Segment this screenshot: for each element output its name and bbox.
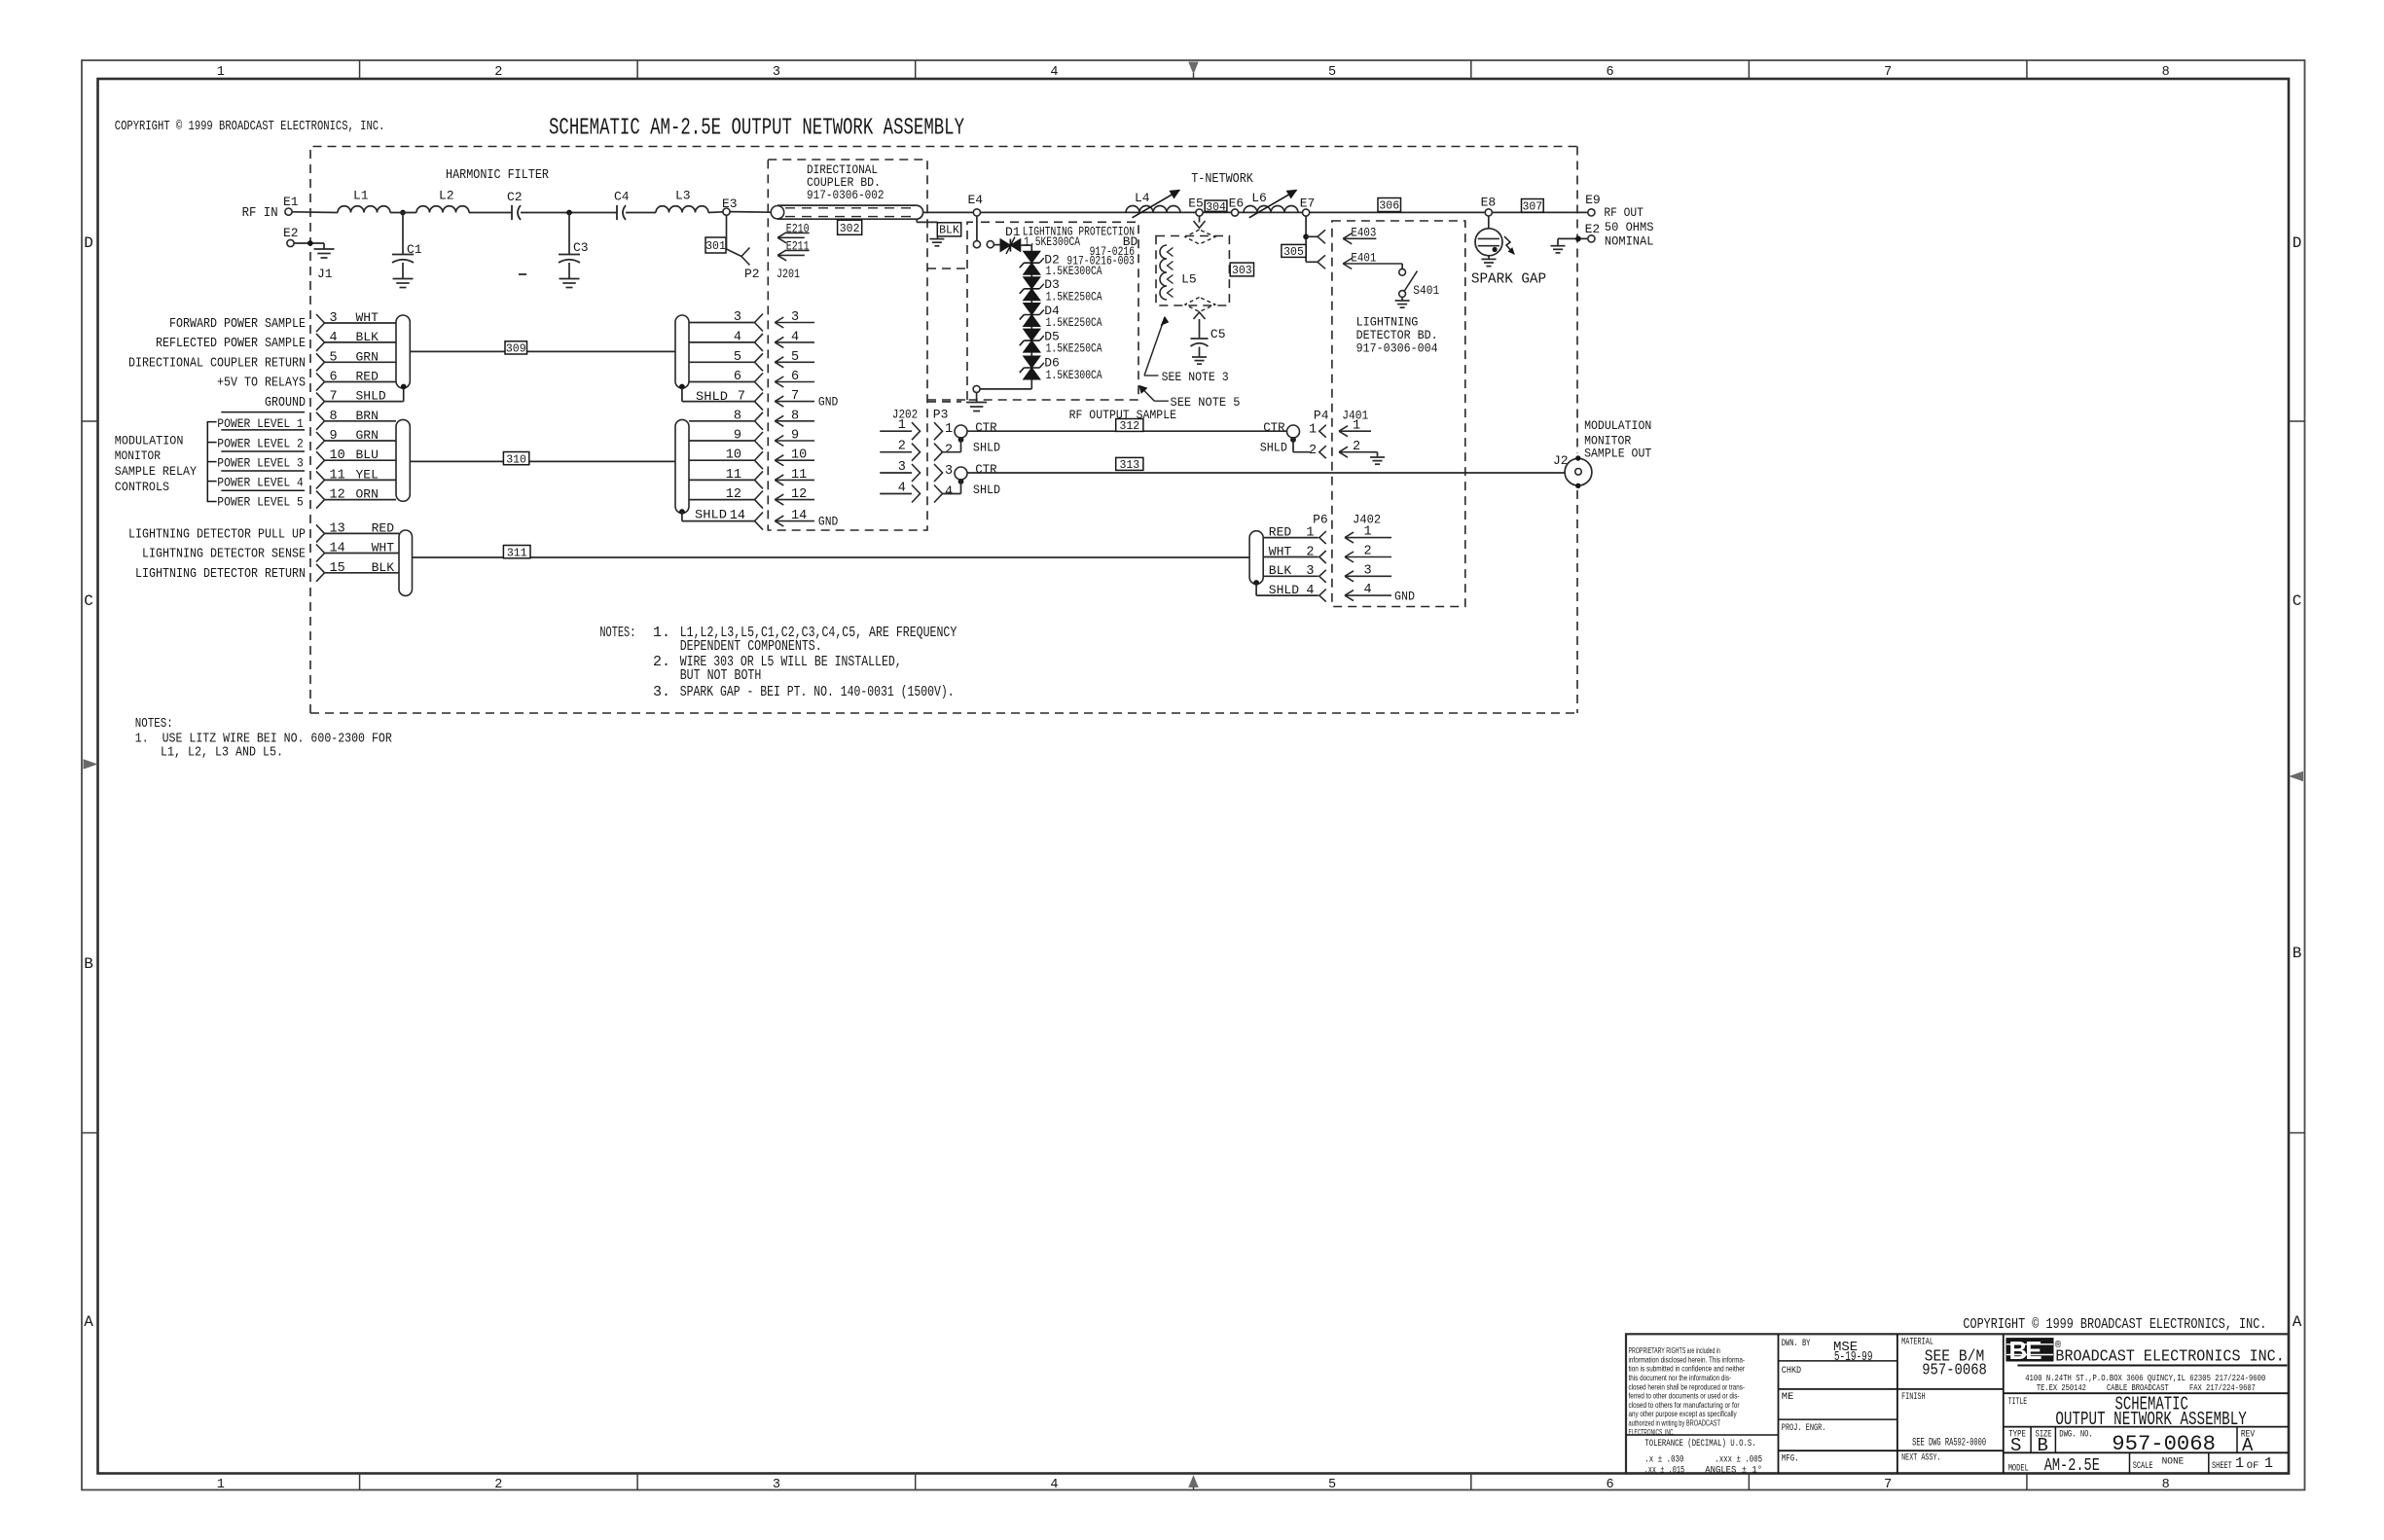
svg-text:5: 5	[1328, 1478, 1336, 1492]
svg-text:E9: E9	[1585, 193, 1601, 207]
svg-text:BUT NOT BOTH: BUT NOT BOTH	[680, 667, 762, 684]
svg-text:1.5KE250CA: 1.5KE250CA	[1046, 341, 1102, 356]
svg-text:E5: E5	[1188, 197, 1204, 211]
wire to D1	[993, 244, 1000, 246]
svg-text:E8: E8	[1481, 196, 1497, 210]
svg-text:2: 2	[945, 444, 953, 458]
svg-text:J201: J201	[777, 267, 800, 281]
wire label box 306	[1378, 198, 1401, 212]
svg-text:1.: 1.	[653, 625, 670, 641]
svg-text:2.: 2.	[653, 654, 670, 670]
svg-text:S: S	[2010, 1435, 2021, 1456]
svg-text:MODULATION: MODULATION	[1584, 418, 1651, 433]
wire coax to E4	[923, 211, 1588, 213]
spark gap symbol	[1475, 229, 1502, 256]
J201 pin 8 J-side	[775, 420, 814, 422]
svg-text:1: 1	[2235, 1455, 2244, 1472]
svg-text:6: 6	[1607, 65, 1614, 80]
svg-text:2: 2	[898, 440, 906, 454]
svg-text:5-19-99: 5-19-99	[1834, 1349, 1873, 1365]
wire label box 301	[705, 237, 726, 253]
wire 313 to modulation monitor	[967, 472, 1566, 474]
svg-text:11: 11	[330, 468, 345, 483]
wire D1 to stack	[1021, 244, 1032, 246]
power level separator lines	[221, 412, 305, 413]
svg-text:9: 9	[791, 429, 799, 444]
svg-text:2: 2	[1353, 440, 1360, 454]
svg-text:COPYRIGHT © 1999 BROADCAST ELE: COPYRIGHT © 1999 BROADCAST ELECTRONICS, …	[115, 119, 385, 134]
P3 pin 3	[934, 464, 943, 482]
svg-text:.xxx ± .005: .xxx ± .005	[1715, 1455, 1762, 1466]
svg-text:CTR: CTR	[975, 462, 997, 477]
svg-text:BLK: BLK	[356, 330, 379, 344]
svg-text:POWER LEVEL 4: POWER LEVEL 4	[217, 476, 304, 490]
border side arrow right	[2291, 772, 2303, 781]
directional coupler coax symbol	[771, 206, 783, 219]
J402 pin 1	[1345, 537, 1391, 539]
svg-text:12: 12	[330, 488, 345, 503]
svg-text:3: 3	[330, 311, 338, 326]
svg-text:DWN. BY: DWN. BY	[1782, 1338, 1811, 1349]
wire label box 311	[503, 546, 530, 558]
arrow up to diamond	[1194, 312, 1206, 319]
svg-text:313: 313	[1119, 459, 1139, 472]
svg-text:ELECTRONICS, INC.: ELECTRONICS, INC.	[1629, 1427, 1675, 1437]
svg-text:303: 303	[1232, 265, 1252, 277]
svg-text:3: 3	[1306, 564, 1314, 579]
directional coupler board dashed box	[768, 160, 927, 530]
svg-text:312: 312	[1119, 420, 1139, 433]
wire label box 302	[838, 220, 862, 234]
svg-text:C2: C2	[507, 190, 523, 204]
svg-text:.x ± .030: .x ± .030	[1644, 1455, 1683, 1466]
svg-text:A: A	[2242, 1435, 2254, 1456]
svg-text:8: 8	[791, 409, 799, 423]
svg-text:3.: 3.	[653, 684, 670, 700]
svg-text:1: 1	[1309, 423, 1317, 438]
border center arrow bottom	[1189, 1477, 1198, 1487]
zone ticks	[359, 60, 361, 79]
svg-text:L1: L1	[353, 189, 369, 203]
svg-text:RED: RED	[356, 370, 379, 384]
svg-text:1: 1	[2264, 1455, 2273, 1472]
wire E5 down arrow	[1199, 216, 1201, 222]
svg-text:SHEET: SHEET	[2212, 1460, 2232, 1472]
P3 pin 2	[934, 444, 943, 461]
svg-text:1: 1	[898, 418, 906, 433]
svg-text:L6: L6	[1251, 191, 1267, 205]
svg-text:E7: E7	[1300, 197, 1316, 211]
svg-text:4: 4	[945, 485, 953, 500]
svg-text:8: 8	[734, 409, 741, 423]
ground S401	[1395, 300, 1410, 302]
cable shield obround group3	[399, 530, 413, 595]
svg-text:MODULATION: MODULATION	[115, 434, 184, 448]
wire E2 to ground	[1558, 237, 1588, 239]
svg-text:GND: GND	[1394, 590, 1415, 604]
svg-text:1: 1	[945, 422, 953, 437]
J201 pin 6 P-side	[689, 381, 755, 383]
svg-text:7: 7	[791, 389, 799, 404]
ground lightning stack	[976, 392, 978, 402]
cable shield obround P-side group1	[396, 315, 410, 388]
cable 309 wire	[410, 350, 675, 352]
svg-text:LIGHTNING DETECTOR PULL UP: LIGHTNING DETECTOR PULL UP	[128, 527, 306, 543]
svg-text:12: 12	[726, 487, 741, 502]
wire coax to BLK	[916, 219, 918, 222]
ground C5	[1192, 356, 1207, 358]
svg-text:310: 310	[506, 453, 526, 466]
svg-text:3: 3	[945, 464, 953, 479]
svg-text:2: 2	[1309, 444, 1317, 458]
svg-text:1.5KE250CA: 1.5KE250CA	[1046, 315, 1102, 330]
wire label box 310	[503, 452, 528, 465]
svg-text:NONE: NONE	[2162, 1455, 2185, 1467]
svg-text:OUTPUT NETWORK ASSEMBLY: OUTPUT NETWORK ASSEMBLY	[2055, 1409, 2247, 1430]
svg-text:C5: C5	[1210, 327, 1226, 341]
P3 SHLD pin2	[958, 437, 964, 443]
J202 pin 2	[880, 451, 912, 453]
svg-text:MFG.: MFG.	[1782, 1452, 1799, 1464]
ground C3	[560, 278, 580, 280]
wire label box 303	[1230, 263, 1253, 276]
svg-text:SEE DWG RA592-0000: SEE DWG RA592-0000	[1912, 1437, 1986, 1449]
svg-text:2: 2	[494, 1478, 502, 1492]
svg-text:B: B	[2293, 945, 2302, 962]
svg-text:11: 11	[791, 468, 807, 483]
diode stack wire	[1030, 251, 1032, 379]
svg-text:SEE NOTE 5: SEE NOTE 5	[1171, 395, 1241, 410]
wire 312	[967, 430, 1287, 432]
svg-text:BLK: BLK	[1269, 563, 1292, 578]
svg-text:SAMPLE RELAY: SAMPLE RELAY	[115, 464, 197, 479]
svg-text:L1, L2, L3 AND L5.: L1, L2, L3 AND L5.	[161, 745, 283, 761]
J201 pin 3 J-side	[775, 322, 814, 324]
border side arrow left	[84, 760, 96, 769]
svg-text:WHT: WHT	[356, 310, 379, 325]
svg-text:2: 2	[1306, 545, 1314, 559]
P6 pin 3 BLK	[1263, 575, 1318, 577]
svg-text:GRN: GRN	[356, 349, 379, 364]
svg-text:TE.EX 250142 CABLE BROADCA: TE.EX 250142 CABLE BROADCAST FAX 217/224…	[2037, 1382, 2256, 1393]
svg-text:5: 5	[791, 350, 799, 365]
cable shield obround P-side group2	[396, 419, 410, 501]
svg-text:P4: P4	[1314, 409, 1329, 423]
svg-text:NOMINAL: NOMINAL	[1605, 234, 1654, 249]
svg-text:4: 4	[1050, 1478, 1058, 1492]
J402 pin 4	[1345, 594, 1391, 596]
J201 pin 14 SHLD	[681, 512, 683, 521]
svg-text:BRN: BRN	[356, 409, 379, 423]
J202 pin 1	[880, 430, 912, 432]
svg-text:E2: E2	[1585, 222, 1601, 236]
J201 pin 7 SHLD	[681, 388, 683, 402]
svg-text:C4: C4	[614, 190, 630, 204]
svg-text:3: 3	[1364, 563, 1372, 578]
svg-text:10: 10	[726, 448, 741, 463]
svg-text:9: 9	[330, 429, 338, 444]
BLK enclosure dashed segments	[927, 268, 967, 269]
svg-text:7: 7	[1884, 65, 1892, 80]
svg-text:ANGLES ± 1°: ANGLES ± 1°	[1705, 1465, 1762, 1477]
svg-text:D1: D1	[1005, 225, 1021, 239]
svg-text:ORN: ORN	[356, 487, 379, 502]
cable 310 wire	[410, 460, 675, 462]
svg-text:917-0306-004: 917-0306-004	[1356, 340, 1438, 355]
svg-text:HARMONIC FILTER: HARMONIC FILTER	[446, 167, 549, 183]
P3 CTR circle pin3	[955, 467, 967, 480]
ground J401 pin2	[1370, 456, 1385, 458]
svg-text:RED: RED	[372, 520, 395, 535]
J201 pin 5 P-side	[689, 361, 755, 363]
svg-text:BLU: BLU	[356, 448, 379, 462]
svg-text:NEXT ASSY.: NEXT ASSY.	[1901, 1452, 1941, 1464]
svg-text:1.5KE300CA: 1.5KE300CA	[1046, 368, 1102, 382]
svg-text:307: 307	[1522, 201, 1542, 214]
svg-text:GROUND: GROUND	[265, 395, 306, 411]
wire L3 to E3	[708, 211, 723, 214]
svg-text:SCALE: SCALE	[2133, 1460, 2153, 1472]
svg-text:1: 1	[1353, 419, 1360, 434]
svg-text:D: D	[2293, 234, 2302, 252]
svg-text:LIGHTNING DETECTOR SENSE: LIGHTNING DETECTOR SENSE	[142, 547, 306, 562]
svg-text:GRN: GRN	[356, 428, 379, 443]
svg-text:3: 3	[773, 65, 780, 80]
svg-text:FINISH: FINISH	[1901, 1391, 1926, 1403]
svg-text:4: 4	[1050, 65, 1058, 80]
wire label box 312	[1116, 419, 1143, 432]
wire L2 to C2	[469, 212, 512, 214]
title block frame	[1626, 1334, 2289, 1473]
link diamond bottom	[1185, 298, 1215, 312]
svg-text:RED: RED	[1269, 524, 1292, 539]
svg-text:DEPENDENT COMPONENTS.: DEPENDENT COMPONENTS.	[680, 638, 822, 655]
P3 CTR circle pin1	[955, 425, 967, 438]
svg-text:6: 6	[1607, 1478, 1614, 1492]
svg-text:SHLD: SHLD	[973, 483, 1000, 497]
svg-text:302: 302	[840, 223, 860, 235]
wire E4 down	[976, 216, 978, 241]
svg-text:TITLE: TITLE	[2008, 1396, 2028, 1408]
svg-text:2: 2	[494, 65, 502, 80]
svg-text:SCHEMATIC AM-2.5E OUTPUT NETWO: SCHEMATIC AM-2.5E OUTPUT NETWORK ASSEMBL…	[549, 116, 964, 142]
svg-text:MODEL: MODEL	[2008, 1463, 2029, 1475]
svg-text:1: 1	[1364, 525, 1372, 540]
svg-text:1: 1	[217, 1478, 225, 1492]
svg-text:15: 15	[330, 561, 345, 576]
J201 pin 14 J-side GND	[775, 520, 814, 522]
svg-text:REFLECTED POWER SAMPLE: REFLECTED POWER SAMPLE	[156, 336, 306, 351]
svg-text:P3: P3	[933, 408, 949, 422]
svg-text:3: 3	[773, 1478, 780, 1492]
svg-text:309: 309	[506, 343, 526, 356]
cable shield obround P6	[1249, 531, 1263, 585]
J201 pin 11 P-side	[689, 479, 755, 481]
svg-text:4: 4	[898, 482, 906, 496]
J201 pin 10 J-side	[775, 459, 814, 461]
svg-text:LIGHTNING DETECTOR RETURN: LIGHTNING DETECTOR RETURN	[135, 566, 306, 582]
svg-text:D: D	[84, 234, 93, 252]
svg-text:8: 8	[330, 410, 338, 424]
svg-text:CONTROLS: CONTROLS	[115, 480, 169, 494]
svg-text:SHLD: SHLD	[695, 508, 727, 522]
svg-text:L4: L4	[1135, 191, 1150, 205]
wire label box 307	[1522, 199, 1544, 213]
svg-text:3: 3	[734, 310, 741, 325]
svg-text:6: 6	[734, 370, 741, 384]
svg-text:SPARK GAP - BEI PT. NO. 140-00: SPARK GAP - BEI PT. NO. 140-0031 (1500V)…	[680, 684, 955, 700]
svg-text:3: 3	[791, 310, 799, 325]
svg-text:P6: P6	[1313, 512, 1328, 526]
svg-text:POWER LEVEL 2: POWER LEVEL 2	[217, 437, 303, 451]
P6 pin 2 WHT	[1263, 556, 1318, 558]
P6 pin 1 RED	[1263, 537, 1318, 539]
svg-text:RF IN: RF IN	[242, 205, 278, 221]
svg-text:E403: E403	[1351, 226, 1376, 240]
svg-text:L3: L3	[675, 189, 691, 203]
svg-text:B: B	[2038, 1435, 2048, 1456]
J201 pin 4 J-side	[775, 341, 814, 343]
svg-text:14: 14	[730, 509, 745, 523]
node after L1	[400, 210, 406, 216]
wire E7 down	[1305, 216, 1307, 262]
svg-text:4: 4	[734, 330, 741, 344]
svg-text:917-0306-002: 917-0306-002	[807, 188, 885, 202]
svg-text:50 OHMS: 50 OHMS	[1605, 220, 1654, 234]
svg-text:POWER LEVEL 1: POWER LEVEL 1	[217, 416, 304, 431]
svg-text:POWER LEVEL 3: POWER LEVEL 3	[217, 456, 303, 471]
svg-text:L2: L2	[439, 189, 454, 203]
BLK label box	[937, 223, 960, 236]
lightning detector board dashed box	[1332, 221, 1465, 607]
svg-text:+5V TO RELAYS: +5V TO RELAYS	[217, 376, 306, 391]
svg-text:NOTES:: NOTES:	[599, 625, 635, 641]
svg-text:306: 306	[1379, 200, 1399, 213]
svg-text:7: 7	[738, 390, 745, 405]
terminal pair into board	[973, 241, 980, 248]
P3 bracket dashed segment	[927, 401, 961, 403]
wire E1 to L1	[292, 211, 338, 214]
ground C1	[393, 278, 414, 280]
wire E3 to coupler	[730, 211, 771, 214]
svg-text:WHT: WHT	[372, 541, 395, 555]
wire stack bottom to terminal	[1030, 379, 1032, 389]
svg-text:10: 10	[330, 448, 345, 463]
svg-text:AM-2.5E: AM-2.5E	[2044, 1456, 2100, 1476]
J201 pin 9 J-side	[775, 440, 814, 442]
P3 pin 4	[934, 485, 943, 503]
wire E2 to ground	[294, 242, 324, 244]
svg-text:BLK: BLK	[372, 560, 395, 575]
svg-text:305: 305	[1283, 246, 1304, 259]
wire label box 313	[1116, 457, 1143, 470]
P6 pin 4 SHLD	[1255, 583, 1257, 595]
wire label box 304	[1205, 200, 1227, 211]
svg-text:DWG. NO.: DWG. NO.	[2059, 1428, 2093, 1440]
J401 pin2 to ground	[1339, 451, 1371, 453]
cable 311 wire	[413, 556, 1250, 558]
svg-text:957-0068: 957-0068	[1922, 1362, 1987, 1380]
svg-text:.xx ± .015: .xx ± .015	[1644, 1466, 1685, 1477]
svg-text:WHT: WHT	[1269, 544, 1292, 558]
ground spark gap	[1482, 258, 1497, 260]
svg-text:SHLD: SHLD	[1269, 583, 1299, 597]
cable shield obround J201-side group1	[675, 315, 689, 388]
svg-text:OF: OF	[2247, 1460, 2259, 1472]
J201 pin 11 J-side	[775, 479, 814, 481]
svg-text:14: 14	[330, 542, 345, 556]
svg-text:S401: S401	[1413, 283, 1439, 298]
svg-text:1: 1	[1306, 525, 1314, 540]
ground E2	[1551, 245, 1566, 247]
svg-text:5: 5	[1328, 65, 1336, 80]
svg-text:7: 7	[330, 390, 338, 405]
J201 pin 12 P-side	[689, 499, 755, 501]
svg-text:301: 301	[705, 240, 726, 253]
svg-text:2: 2	[1364, 545, 1372, 559]
P3 SHLD pin4	[958, 479, 964, 484]
wire C2 to node	[521, 212, 617, 214]
wire label box 309	[505, 341, 527, 354]
svg-text:4: 4	[1306, 584, 1314, 598]
svg-text:SHLD: SHLD	[1260, 441, 1287, 455]
svg-text:8: 8	[2162, 1478, 2170, 1492]
assembly outline dashed box	[310, 147, 1577, 714]
svg-text:MONITOR: MONITOR	[115, 448, 161, 463]
svg-text:CHKD: CHKD	[1782, 1365, 1801, 1377]
svg-text:SHLD: SHLD	[356, 389, 386, 404]
J401 pin1	[1339, 430, 1371, 432]
svg-text:GND: GND	[818, 395, 839, 410]
svg-text:BE: BE	[2009, 1336, 2042, 1365]
J201 pin 7 J-side GND	[775, 401, 814, 403]
svg-text:6: 6	[330, 371, 338, 385]
svg-text:12: 12	[791, 487, 807, 502]
node before C4	[566, 210, 572, 216]
svg-text:4: 4	[330, 331, 338, 345]
lightning protection board dashed box	[967, 222, 973, 400]
svg-text:SPARK GAP: SPARK GAP	[1471, 270, 1546, 287]
svg-text:E1: E1	[283, 195, 299, 209]
svg-text:BLK: BLK	[939, 225, 959, 237]
svg-text:FORWARD POWER SAMPLE: FORWARD POWER SAMPLE	[169, 316, 306, 332]
svg-text:9: 9	[734, 429, 741, 444]
wire label box 305	[1282, 244, 1306, 257]
svg-text:11: 11	[726, 468, 741, 483]
power level bracket	[207, 422, 216, 502]
BE logo	[2006, 1339, 2053, 1361]
J201 pin 8 P-side	[689, 420, 755, 422]
inductor L5 dashed box	[1156, 236, 1229, 306]
svg-text:1.5KE250CA: 1.5KE250CA	[1046, 289, 1102, 304]
svg-text:CTR: CTR	[1263, 420, 1285, 435]
J201 pin 4 P-side	[689, 341, 755, 343]
svg-text:SEE NOTE 3: SEE NOTE 3	[1162, 370, 1229, 384]
svg-text:6: 6	[791, 370, 799, 384]
svg-text:5: 5	[734, 350, 741, 365]
svg-text:14: 14	[791, 509, 807, 523]
svg-text:5: 5	[330, 350, 338, 365]
svg-text:13: 13	[330, 521, 345, 536]
J402 pin 3	[1345, 575, 1391, 577]
J202 pin 4	[880, 493, 912, 495]
svg-text:ME: ME	[1782, 1391, 1794, 1403]
J201 pin 6 J-side	[775, 381, 814, 383]
svg-text:1.5KE300CA: 1.5KE300CA	[1046, 264, 1102, 278]
J201 pin 12 J-side	[775, 499, 814, 501]
svg-text:E2: E2	[283, 226, 299, 240]
svg-text:TOLERANCE (DECIMAL) U.O.S.: TOLERANCE (DECIMAL) U.O.S.	[1644, 1438, 1755, 1450]
